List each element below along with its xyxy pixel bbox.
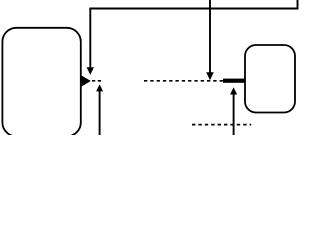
dash stub after triangle (92, 80, 101, 82)
up arrow from bottom edge to dash stub (99, 91, 101, 135)
arrowhead down onto dashed line (206, 72, 214, 80)
wire: vertical line from top edge to middle dashed line (209, 0, 211, 73)
bottom dashed line (192, 124, 251, 126)
thick bar into right rectangle (223, 79, 245, 83)
middle dashed line (144, 80, 223, 82)
solid triangle output port on left rectangle (80, 75, 91, 87)
wire: top elbow line from top-right down-left to left arrow (90, 0, 297, 68)
up arrow from bottom edge to thick bar (233, 94, 235, 135)
arrowhead down onto triangle node (87, 67, 94, 75)
left rounded rectangle (activity, bottom cropped by canvas) (2, 28, 80, 137)
right rounded rectangle (activity) (245, 45, 295, 113)
